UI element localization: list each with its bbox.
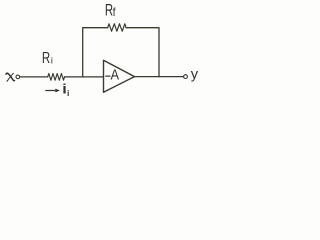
svg-text:R: R <box>42 48 50 66</box>
svg-text:i: i <box>51 55 53 65</box>
svg-text:y: y <box>191 67 199 83</box>
svg-text:A: A <box>111 67 120 83</box>
svg-text:i: i <box>67 88 69 98</box>
svg-text:f: f <box>113 6 117 19</box>
